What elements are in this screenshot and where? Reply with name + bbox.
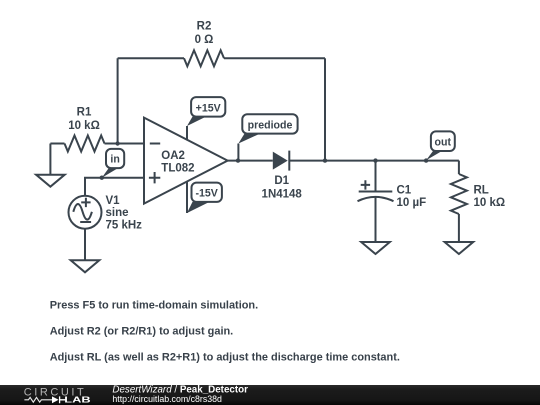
- svg-text:-15V: -15V: [196, 188, 218, 200]
- wire feedback left vertical: [117, 58, 119, 143]
- node junction (feedback joins output rail): [323, 158, 327, 162]
- power flag +15V: [187, 97, 225, 140]
- op-amp OA2: [144, 118, 228, 204]
- resistor RL: [451, 161, 505, 242]
- node junction (C1): [373, 158, 377, 162]
- svg-text:10 kΩ: 10 kΩ: [474, 197, 506, 209]
- svg-text:LAB: LAB: [64, 396, 91, 405]
- wire top left horizontal: [118, 57, 184, 59]
- svg-text:in: in: [110, 154, 119, 166]
- wire diode to RL: [289, 160, 459, 162]
- svg-text:0 Ω: 0 Ω: [195, 34, 214, 46]
- svg-text:R2: R2: [197, 21, 212, 33]
- wire top right horizontal: [224, 57, 325, 59]
- svg-text:Press F5 to run time-domain si: Press F5 to run time-domain simulation.: [50, 300, 258, 312]
- footer bar: [0, 385, 540, 405]
- ground (R1): [36, 144, 65, 187]
- svg-text:D1: D1: [274, 175, 289, 187]
- capacitor C1: [358, 161, 427, 242]
- svg-text:prediode: prediode: [248, 119, 293, 131]
- svg-text:10 kΩ: 10 kΩ: [68, 120, 100, 132]
- svg-text:75 kHz: 75 kHz: [106, 220, 143, 232]
- svg-text:Adjust RL (as well as R2+R1) t: Adjust RL (as well as R2+R1) to adjust t…: [50, 351, 400, 363]
- diode D1: [262, 151, 303, 201]
- wire V1 top to + input: [85, 178, 144, 196]
- svg-text:C1: C1: [397, 185, 412, 197]
- svg-text:sine: sine: [106, 207, 129, 219]
- node flag prediode: [236, 114, 298, 163]
- logo diode: [52, 396, 59, 403]
- wire op-amp output to diode: [228, 160, 273, 162]
- ground (V1): [71, 260, 100, 272]
- svg-text:10 µF: 10 µF: [397, 197, 427, 209]
- svg-text:OA2: OA2: [161, 150, 185, 162]
- resistor R1: [50, 107, 144, 152]
- svg-text:+15V: +15V: [196, 102, 221, 114]
- svg-text:Adjust R2 (or R2/R1) to adjust: Adjust R2 (or R2/R1) to adjust gain.: [50, 326, 234, 338]
- ground (C1): [361, 242, 390, 254]
- wire V1 bottom: [84, 229, 86, 261]
- svg-text:R1: R1: [77, 107, 92, 119]
- wire feedback right vertical: [324, 58, 326, 160]
- resistor R2: [184, 21, 224, 67]
- svg-text:out: out: [435, 137, 452, 149]
- svg-text:RL: RL: [474, 185, 489, 197]
- node junction (feedback joins inverting input): [115, 141, 119, 145]
- svg-text:1N4148: 1N4148: [262, 189, 303, 201]
- svg-text:TL082: TL082: [161, 163, 194, 175]
- logo resistor squiggle: [24, 397, 52, 402]
- voltage source V1: [69, 195, 143, 232]
- svg-text:V1: V1: [106, 195, 121, 207]
- ground (RL): [445, 242, 474, 254]
- svg-text:http://circuitlab.com/c8rs38d: http://circuitlab.com/c8rs38d: [112, 394, 222, 404]
- power flag -15V: [187, 182, 222, 213]
- node flag out: [424, 131, 455, 162]
- node flag in: [100, 149, 125, 180]
